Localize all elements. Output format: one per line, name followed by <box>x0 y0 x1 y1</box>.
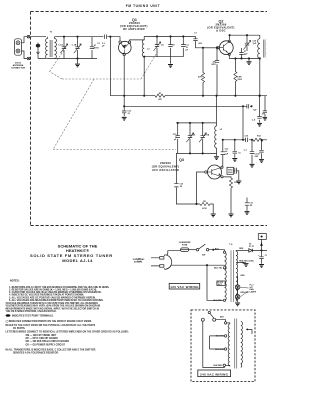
svg-text:GRN: GRN <box>240 275 245 277</box>
svg-text:MEASUREMENTS MADE WITH NO SIGN: MEASUREMENTS MADE WITH NO SIGNAL INPUT, … <box>6 307 100 310</box>
svg-text:.005: .005 <box>198 43 203 45</box>
svg-text:54-71: 54-71 <box>218 283 222 286</box>
svg-text:IN ALL TRANSISTORS, B INDICATE: IN ALL TRANSISTORS, B INDICATES BASE, C … <box>6 349 97 352</box>
svg-text:OS — OS POWER SUPPLY CIRC: OS — OS POWER SUPPLY CIRCUIT <box>26 344 66 346</box>
svg-text:BLK-RED: BLK-RED <box>213 300 222 302</box>
svg-text:2. RESISTOR VALUES ARE IN OHM: 2. RESISTOR VALUES ARE IN OHMS (K = 1,00… <box>9 289 97 292</box>
svg-text:REFER TO THE X-RAY VIEW FOR TH: REFER TO THE X-RAY VIEW FOR THE PHYSICAL… <box>6 324 96 327</box>
svg-text:R9: R9 <box>203 201 206 203</box>
svg-text:RED: RED <box>239 248 244 250</box>
svg-text:RF AMPLIFIER: RF AMPLIFIER <box>123 27 145 31</box>
svg-text:BLK: BLK <box>215 248 220 250</box>
svg-text:C101: C101 <box>265 255 267 257</box>
svg-text:◯ INDICATES CONNECTION POINTS: ◯ INDICATES CONNECTION POINTS ON THE CIR… <box>6 320 93 323</box>
svg-text:DENOTES A 5% TOLERANCE RESISTO: DENOTES A 5% TOLERANCE RESISTOR. <box>13 352 59 355</box>
svg-text:C-8: C-8 <box>252 119 256 121</box>
svg-text:4. INDICATES DC VOLTAGE READI: 4. INDICATES DC VOLTAGE READINGS TAKEN A… <box>9 294 84 297</box>
svg-text:CONNECTOR: CONNECTOR <box>11 67 25 69</box>
svg-text:1. RESISTORS ARE 1/4 WATT UNL: 1. RESISTORS ARE 1/4 WATT UNLESS MARKED … <box>9 286 110 289</box>
svg-text:C16: C16 <box>191 134 196 136</box>
svg-text:LAMPS: LAMPS <box>250 291 257 294</box>
svg-text:& OSC: & OSC <box>216 28 226 32</box>
svg-text:OP — OP IF CIRCUIT BOARD: OP — OP IF CIRCUIT BOARD <box>26 337 59 340</box>
svg-text:BLK-GRN: BLK-GRN <box>215 349 224 351</box>
svg-text:.05: .05 <box>179 186 183 188</box>
svg-text:C2: C2 <box>97 43 100 45</box>
svg-text:57-27: 57-27 <box>249 246 254 248</box>
svg-text:50/60 HZ: 50/60 HZ <box>134 262 143 264</box>
svg-text:THE FM STEREO POSITION, UNLESS: THE FM STEREO POSITION, UNLESS NOTED. <box>6 311 57 313</box>
svg-text:C-1B: C-1B <box>72 45 77 47</box>
svg-text:NOTES:: NOTES: <box>10 280 20 283</box>
svg-text:NPO: NPO <box>211 64 216 66</box>
svg-text:.05: .05 <box>249 205 253 207</box>
svg-text:FM TUNING UNIT: FM TUNING UNIT <box>126 4 160 8</box>
svg-text:AFC OSCILLATOR: AFC OSCILLATOR <box>152 168 179 172</box>
svg-text:LETTERED WIRES CONNECT TO IDEN: LETTERED WIRES CONNECT TO IDENTICAL LETT… <box>6 331 129 334</box>
svg-text:6. ALL VOLTAGES ARE MEASURED: 6. ALL VOLTAGES ARE MEASURED FROM POINT … <box>9 299 104 302</box>
svg-text:T1: T1 <box>50 31 53 33</box>
svg-text:T 4: T 4 <box>229 243 233 246</box>
svg-text:47K: 47K <box>198 75 202 78</box>
svg-text:pF: pF <box>102 45 105 47</box>
svg-text:pF: pF <box>186 49 189 51</box>
svg-text:5. ALL VOLTAGES ARE DC POSITI: 5. ALL VOLTAGES ARE DC POSITIVE UNLESS M… <box>9 296 96 299</box>
svg-text:INDICATES TEST POINT TERMINALS: INDICATES TEST POINT TERMINALS. <box>12 315 54 318</box>
svg-text:BLK-RED: BLK-RED <box>213 365 222 367</box>
svg-text:C-1: C-1 <box>244 149 248 151</box>
svg-text:OF PARTS.: OF PARTS. <box>13 327 26 330</box>
svg-text:µµF: µµF <box>244 54 248 56</box>
svg-text:105-125 VAC: 105-125 VAC <box>133 258 146 261</box>
svg-text:.01: .01 <box>127 113 131 115</box>
svg-text:7pF: 7pF <box>253 43 257 45</box>
svg-text:C17A: C17A <box>204 133 210 136</box>
svg-text:Q3: Q3 <box>179 158 184 162</box>
svg-text:OM — OM FM TUNING UNIT: OM — OM FM TUNING UNIT <box>26 335 57 337</box>
svg-text:VOLTMETER READINGS MAY VARY ±2: VOLTMETER READINGS MAY VARY ±20% FROM TH… <box>6 305 101 308</box>
svg-text:4700: 4700 <box>202 207 207 210</box>
svg-text:C5: C5 <box>172 44 175 46</box>
svg-text:.005: .005 <box>254 156 259 158</box>
svg-text:L3: L3 <box>147 48 150 50</box>
svg-text:L5: L5 <box>220 129 223 131</box>
svg-text:7pF: 7pF <box>253 109 257 111</box>
svg-text:BLK-YEL: BLK-YEL <box>216 336 225 338</box>
svg-text:R12: R12 <box>257 136 262 138</box>
svg-text:µµF: µµF <box>225 153 229 155</box>
svg-text:C7: C7 <box>194 32 197 34</box>
svg-text:VOLTAGE READINGS TAKEN WITH A: VOLTAGE READINGS TAKEN WITH A VACUUM TUB… <box>6 302 99 305</box>
svg-text:120 VAC WIRING: 120 VAC WIRING <box>170 285 199 289</box>
svg-text:N750: N750 <box>94 47 100 49</box>
svg-text:6.3VAC: 6.3VAC <box>248 259 255 262</box>
svg-text:pF: pF <box>174 139 177 141</box>
svg-text:BLK-YEL: BLK-YEL <box>214 268 223 270</box>
svg-text:1000: 1000 <box>237 79 242 81</box>
svg-text:C4: C4 <box>161 43 164 46</box>
svg-text:C-1A: C-1A <box>58 44 63 47</box>
svg-text:470: 470 <box>158 98 162 101</box>
svg-text:240 VAC WIRING: 240 VAC WIRING <box>200 372 229 376</box>
svg-text:C19: C19 <box>244 136 249 138</box>
svg-text:BLK: BLK <box>220 317 225 319</box>
svg-text:MODEL AJ-14: MODEL AJ-14 <box>62 258 93 263</box>
svg-text:.01: .01 <box>238 152 242 154</box>
svg-text:OR — OR MULTIPLEX CIRCUIT: OR — OR MULTIPLEX CIRCUIT BOARD <box>26 340 70 343</box>
svg-text:GRN-YEL: GRN-YEL <box>240 292 249 294</box>
svg-text:3. CAPACITOR VALUES ARE IN µF: 3. CAPACITOR VALUES ARE IN µF UNLESS MAR… <box>9 291 102 294</box>
svg-text:SW: SW <box>202 254 205 256</box>
svg-text:FUSE: FUSE <box>182 244 188 246</box>
svg-text:2N2369: 2N2369 <box>160 161 171 165</box>
svg-text:(OR EQUIVALENT): (OR EQUIVALENT) <box>152 164 179 168</box>
svg-text:27: 27 <box>244 51 247 53</box>
